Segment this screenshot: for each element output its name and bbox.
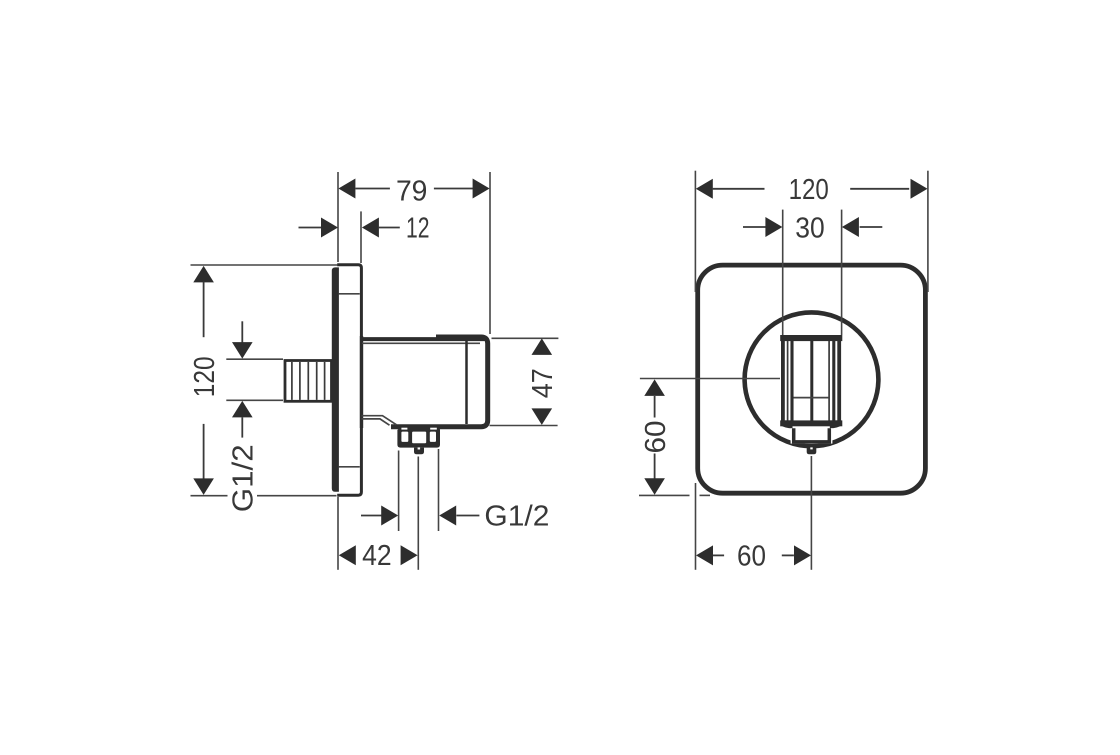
left view hose nut: [397, 427, 440, 448]
svg-text:120: 120: [189, 356, 221, 397]
dimension 30: [743, 210, 882, 335]
right view circle: [745, 312, 879, 446]
dimension 79: [338, 172, 490, 334]
svg-text:G1/2: G1/2: [484, 501, 549, 533]
left view threaded inlet (hatched): [285, 361, 332, 402]
svg-text:47: 47: [527, 368, 559, 398]
svg-text:42: 42: [362, 540, 392, 572]
svg-text:120: 120: [789, 174, 829, 206]
left view wall plate (side): [332, 263, 363, 496]
svg-text:79: 79: [396, 176, 428, 208]
left view outlet nipple: [414, 447, 424, 454]
left view outlet body / holder cup: [362, 337, 488, 427]
svg-text:60: 60: [640, 421, 672, 454]
svg-text:12: 12: [406, 212, 430, 244]
right view handle holder: [780, 335, 842, 454]
dimension 42: [338, 457, 418, 573]
label G1/2 inlet: [226, 321, 283, 512]
svg-text:30: 30: [795, 212, 824, 244]
svg-text:G1/2: G1/2: [228, 444, 260, 512]
dimension 12: [299, 211, 430, 263]
dimension 120 (left view height): [189, 265, 338, 496]
dimension 120 (right view width): [695, 171, 928, 292]
dimension 60 (right view vertical): [639, 379, 780, 496]
label G1/2 outlet: [361, 449, 549, 533]
svg-text:60: 60: [737, 540, 766, 572]
dimension 47: [490, 338, 560, 425]
right view escutcheon plate: [698, 265, 926, 493]
dimension 60 (right view horizontal): [696, 456, 812, 572]
